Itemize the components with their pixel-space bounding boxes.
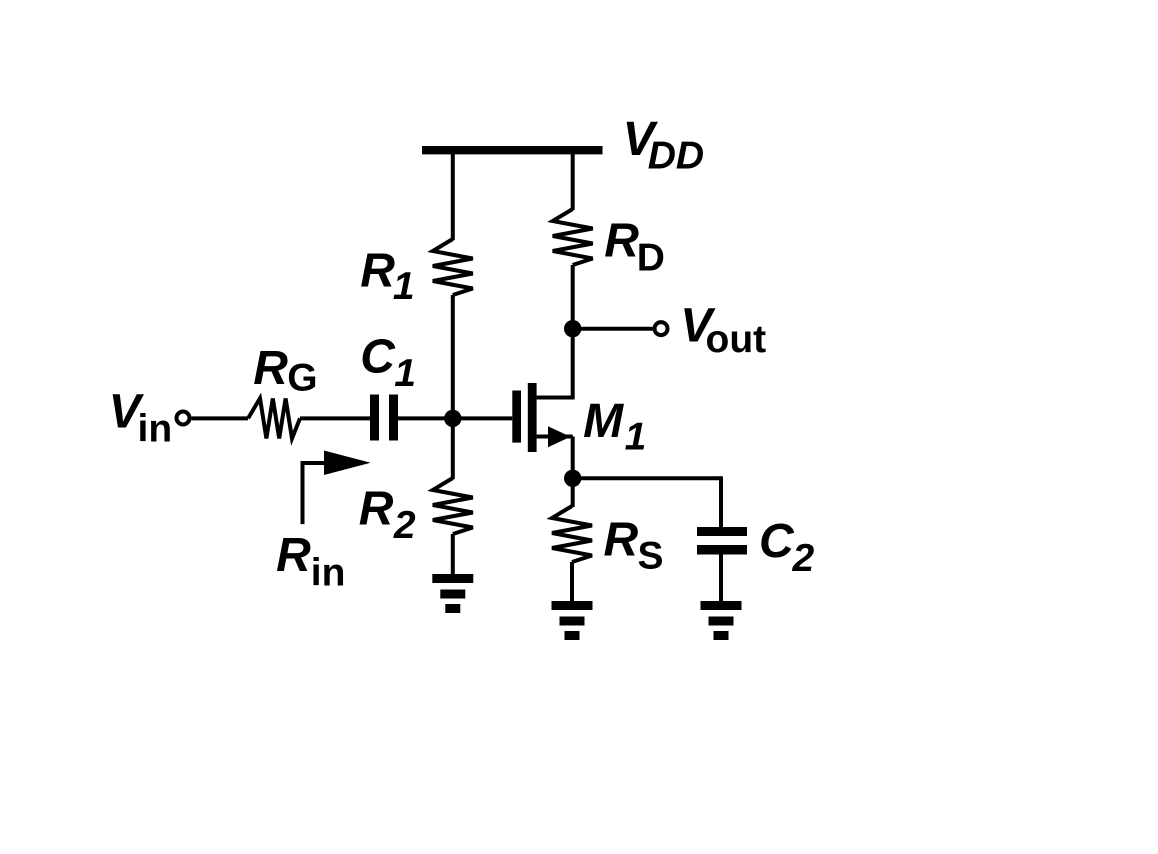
svg-text:out: out	[706, 318, 767, 361]
svg-text:C: C	[759, 515, 795, 568]
svg-text:in: in	[138, 408, 173, 451]
svg-text:R: R	[253, 342, 288, 395]
svg-text:DD: DD	[648, 134, 704, 177]
svg-text:1: 1	[394, 352, 416, 395]
svg-text:S: S	[638, 535, 664, 578]
svg-text:G: G	[287, 357, 317, 400]
svg-text:in: in	[311, 551, 346, 594]
svg-text:R: R	[604, 214, 639, 267]
svg-text:1: 1	[625, 416, 647, 459]
svg-text:R: R	[604, 513, 639, 566]
svg-text:R: R	[276, 529, 311, 582]
svg-text:D: D	[637, 237, 665, 280]
svg-text:C: C	[360, 330, 396, 383]
svg-text:M: M	[583, 395, 624, 448]
svg-text:R: R	[360, 244, 395, 297]
svg-text:2: 2	[792, 537, 815, 580]
svg-text:R: R	[359, 483, 394, 536]
svg-text:2: 2	[393, 504, 416, 547]
svg-text:1: 1	[393, 265, 415, 308]
